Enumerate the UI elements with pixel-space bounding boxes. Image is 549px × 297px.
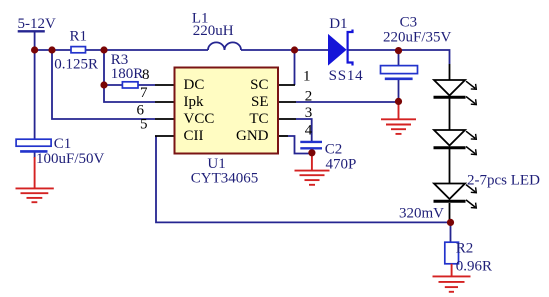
svg-text:5: 5 bbox=[140, 117, 148, 133]
svg-text:SS14: SS14 bbox=[329, 68, 364, 84]
svg-text:220uF/35V: 220uF/35V bbox=[383, 30, 452, 46]
svg-text:4: 4 bbox=[305, 123, 313, 139]
svg-text:TC: TC bbox=[249, 111, 268, 127]
svg-text:C2: C2 bbox=[325, 142, 343, 158]
svg-text:2-7pcs LED: 2-7pcs LED bbox=[467, 172, 540, 188]
svg-text:U1: U1 bbox=[207, 156, 225, 172]
svg-text:100uF/50V: 100uF/50V bbox=[36, 151, 105, 167]
svg-text:7: 7 bbox=[140, 85, 148, 101]
svg-text:GND: GND bbox=[236, 128, 269, 144]
svg-text:R2: R2 bbox=[456, 240, 474, 256]
svg-text:CYT34065: CYT34065 bbox=[191, 171, 258, 187]
svg-text:C3: C3 bbox=[400, 14, 418, 30]
svg-text:180R: 180R bbox=[111, 66, 144, 82]
svg-text:0.125R: 0.125R bbox=[54, 56, 98, 72]
svg-text:1: 1 bbox=[303, 69, 311, 85]
svg-text:220uH: 220uH bbox=[193, 23, 234, 39]
svg-text:320mV: 320mV bbox=[399, 206, 444, 222]
svg-text:8: 8 bbox=[142, 67, 150, 83]
svg-text:SE: SE bbox=[251, 94, 269, 110]
svg-text:VCC: VCC bbox=[184, 111, 215, 127]
svg-text:470P: 470P bbox=[326, 157, 357, 173]
svg-text:Ipk: Ipk bbox=[184, 94, 204, 110]
svg-text:0.96R: 0.96R bbox=[456, 259, 492, 275]
svg-text:D1: D1 bbox=[329, 16, 347, 32]
svg-text:R1: R1 bbox=[70, 29, 88, 45]
svg-text:C1: C1 bbox=[54, 136, 72, 152]
svg-text:CII: CII bbox=[184, 128, 204, 144]
svg-text:2: 2 bbox=[305, 89, 313, 105]
svg-text:SC: SC bbox=[250, 77, 268, 93]
svg-text:DC: DC bbox=[184, 77, 205, 93]
svg-text:5-12V: 5-12V bbox=[18, 16, 56, 32]
svg-text:3: 3 bbox=[305, 105, 313, 121]
